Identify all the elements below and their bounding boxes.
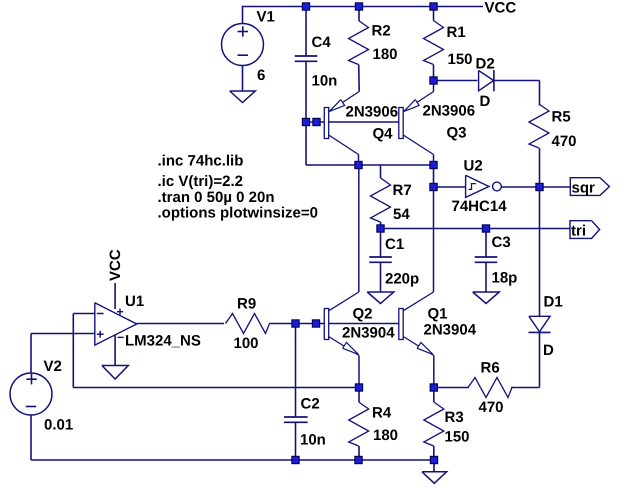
- label U2: [464, 158, 483, 175]
- label VCC top rail: [485, 0, 517, 17]
- wire tri net: [381, 228, 571, 230]
- label VCC of U1 rotated: [107, 249, 124, 281]
- node junction Q1 emitter / R3 / R6: [430, 384, 437, 391]
- wire U1 V+ lead: [114, 283, 116, 309]
- transistor Q3 base bar: [399, 108, 403, 139]
- ground under C3: [473, 292, 500, 304]
- wire V2 top lead: [30, 334, 32, 374]
- svg-text:R1: R1: [447, 24, 466, 41]
- label C2: [301, 396, 320, 413]
- node junction C2 bottom: [292, 456, 299, 463]
- wire V1 bottom lead: [242, 66, 244, 92]
- wire C3 bottom lead: [485, 262, 487, 292]
- capacitor C3: [475, 257, 498, 262]
- wire R3 bottom lead: [433, 446, 435, 460]
- svg-text:V2: V2: [44, 358, 62, 375]
- svg-text:C4: C4: [312, 34, 332, 51]
- svg-text:.inc 74hc.lib: .inc 74hc.lib: [158, 153, 244, 170]
- svg-text:180: 180: [373, 427, 398, 444]
- label R6: [481, 360, 500, 377]
- wire ground lead bottom: [433, 460, 435, 472]
- svg-text:Q2: Q2: [353, 306, 373, 323]
- wire R6 left lead: [434, 387, 469, 389]
- resistor R3: [424, 402, 444, 446]
- svg-text:C1: C1: [385, 236, 404, 253]
- label R7: [393, 182, 412, 199]
- transistor Q2 collector: [329, 165, 359, 311]
- ground under U1: [102, 366, 128, 380]
- svg-text:C3: C3: [492, 234, 511, 251]
- node junction U2 input: [430, 183, 437, 190]
- wire C1 top lead: [380, 229, 382, 258]
- label R1: [447, 24, 466, 41]
- node junction base wire second: [313, 118, 320, 125]
- label V1: [257, 9, 275, 26]
- node junction Q4/Q2 collectors: [355, 161, 362, 168]
- wire C4 top lead: [305, 7, 307, 57]
- wire collector row left: [306, 164, 359, 166]
- wire R1 top lead: [433, 7, 435, 21]
- svg-text:R4: R4: [372, 405, 392, 422]
- capacitor C4: [295, 56, 318, 61]
- transistor Q3 emitter arrow: [404, 100, 419, 112]
- label U1: [125, 293, 144, 310]
- svg-text:2N3906: 2N3906: [423, 103, 476, 120]
- svg-text:6: 6: [257, 67, 265, 84]
- transistor Q1 emitter: [403, 337, 434, 388]
- node junction R7 bottom / tri: [377, 225, 384, 232]
- svg-text:54: 54: [393, 206, 410, 223]
- label Q3: [447, 125, 467, 142]
- wire C2 bottom lead: [295, 422, 297, 460]
- svg-text:2N3904: 2N3904: [342, 325, 395, 342]
- node junction Q2 emitter / R4 / feedback: [355, 384, 362, 391]
- wire R1 bottom lead: [433, 65, 435, 81]
- svg-text:D2: D2: [476, 56, 495, 73]
- value 150 of R1: [448, 51, 473, 68]
- wire R9 right lead: [270, 323, 296, 325]
- svg-text:470: 470: [552, 133, 577, 150]
- node junction R4 bottom: [355, 456, 362, 463]
- wire C2 top lead: [295, 324, 297, 418]
- svg-text:C2: C2: [301, 396, 320, 413]
- wire V1 top lead: [242, 6, 244, 24]
- svg-text:Q1: Q1: [428, 306, 448, 323]
- op-amp U1: [95, 303, 137, 345]
- node junction R3 bottom / ground: [430, 456, 437, 463]
- wire feedback down: [72, 314, 74, 388]
- svg-text:Q4: Q4: [373, 126, 394, 143]
- value 10n of C4: [312, 73, 338, 90]
- svg-text:R6: R6: [481, 360, 500, 377]
- svg-text:sqr: sqr: [572, 179, 596, 196]
- transistor Q2 emitter: [329, 337, 359, 388]
- label 74HC14: [452, 198, 508, 215]
- directive .options: [158, 205, 318, 222]
- svg-text:VCC: VCC: [107, 249, 124, 281]
- inverter U2: [466, 175, 502, 197]
- node junction C3 top: [482, 225, 489, 232]
- value 470 of R5: [552, 133, 577, 150]
- svg-text:R7: R7: [393, 182, 412, 199]
- label C3: [492, 234, 511, 251]
- value 150 of R3: [445, 429, 470, 446]
- voltage source V1: [222, 24, 264, 66]
- wire U2 output: [501, 186, 570, 188]
- diode D1: [529, 316, 551, 332]
- value 6 of V1: [257, 67, 265, 84]
- transistor Q4 collector: [329, 135, 359, 165]
- value 0.01 of V2: [44, 417, 73, 434]
- wire VCC top rail: [243, 6, 484, 8]
- transistor Q1 collector: [403, 187, 433, 311]
- node junction base wire second bottom: [312, 320, 319, 327]
- resistor R1: [424, 21, 444, 65]
- label 2N3906 of Q4: [346, 104, 399, 121]
- wire feedback across: [73, 387, 359, 389]
- wire bottom rail: [31, 459, 434, 461]
- flag sqr: [570, 178, 609, 197]
- svg-text:470: 470: [479, 399, 504, 416]
- wire R5 bottom lead: [539, 148, 541, 187]
- label V2: [44, 358, 62, 375]
- label C1: [385, 236, 404, 253]
- resistor R6: [468, 378, 512, 398]
- directive .inc: [158, 153, 244, 170]
- diode D2: [479, 70, 494, 91]
- wire C1 bottom lead: [380, 262, 382, 292]
- ground under C1: [367, 292, 394, 304]
- svg-text:180: 180: [373, 46, 398, 63]
- value 470 of R6: [479, 399, 504, 416]
- node junction top rail at C4: [302, 3, 309, 10]
- ground bottom: [422, 472, 447, 484]
- svg-text:150: 150: [448, 51, 473, 68]
- svg-text:74HC14: 74HC14: [452, 198, 508, 215]
- svg-text:VCC: VCC: [485, 0, 517, 17]
- svg-text:.ic V(tri)=2.2: .ic V(tri)=2.2: [158, 173, 243, 190]
- resistor R4: [349, 402, 369, 446]
- label R2: [372, 23, 391, 40]
- directive .ic: [158, 173, 243, 190]
- label Q4: [373, 126, 394, 143]
- wire D2 cathode to R5 corner: [494, 81, 540, 106]
- capacitor C2: [284, 417, 308, 422]
- value D of D2: [480, 93, 491, 110]
- label 2N3904 of Q1: [424, 322, 477, 339]
- label R3: [445, 409, 464, 426]
- svg-text:D1: D1: [544, 294, 563, 311]
- label D2: [476, 56, 495, 73]
- wire U1 plus input: [31, 333, 95, 335]
- label R9: [237, 296, 256, 313]
- transistor Q2 base bar: [324, 309, 328, 340]
- resistor R7: [371, 178, 391, 222]
- svg-text:220p: 220p: [385, 271, 419, 288]
- svg-text:10n: 10n: [312, 73, 338, 90]
- ground under V1: [230, 91, 256, 103]
- value 180 of R2: [373, 46, 398, 63]
- wire R2 bottom lead: [358, 65, 361, 92]
- node junction top rail at R2: [355, 3, 362, 10]
- svg-text:.options plotwinsize=0: .options plotwinsize=0: [158, 205, 318, 222]
- label LM324_NS: [125, 333, 201, 350]
- flag tri: [570, 221, 600, 240]
- svg-text:tri: tri: [571, 223, 586, 240]
- transistor Q3 collector: [403, 135, 433, 165]
- node junction top rail at R1: [430, 3, 437, 10]
- svg-text:10n: 10n: [300, 432, 326, 449]
- wire U1 V- lead: [114, 335, 116, 366]
- wire R4 top lead: [358, 388, 360, 403]
- wire to D2 anode: [434, 80, 478, 82]
- svg-text:U2: U2: [464, 158, 483, 175]
- wire R2 top lead: [358, 7, 360, 21]
- label 2N3904 of Q2: [342, 325, 395, 342]
- node junction C4/base wire: [302, 118, 309, 125]
- value 10n of C2: [300, 432, 326, 449]
- voltage source V2: [10, 373, 52, 415]
- wire base rail PNP pair: [306, 121, 399, 123]
- wire Q3 collector to U2 input: [433, 165, 435, 187]
- value 18p of C3: [492, 270, 518, 287]
- svg-text:R5: R5: [552, 109, 571, 126]
- label 2N3906 of Q3: [423, 103, 476, 120]
- resistor R5: [529, 104, 549, 148]
- wire R7 bottom lead: [380, 222, 382, 229]
- value D of D1: [543, 342, 554, 359]
- svg-text:18p: 18p: [492, 270, 518, 287]
- wire V2 bottom lead: [30, 415, 32, 460]
- wire collector row right: [359, 164, 434, 166]
- node junction sqr net: [536, 183, 543, 190]
- transistor Q4 base bar: [324, 108, 328, 139]
- wire D1 cathode down: [539, 332, 541, 387]
- label Q2: [353, 306, 373, 323]
- label R5: [552, 109, 571, 126]
- svg-text:100: 100: [234, 335, 259, 352]
- wire corner to R6: [511, 387, 540, 389]
- resistor R2: [349, 21, 369, 65]
- wire R3 top lead: [433, 388, 435, 403]
- svg-text:D: D: [543, 342, 554, 359]
- svg-text:D: D: [480, 93, 491, 110]
- wire C4-node down: [305, 122, 307, 165]
- directive .tran: [158, 189, 275, 206]
- wire U1 output: [137, 323, 224, 325]
- transistor Q1 base bar: [399, 309, 403, 340]
- label D1: [544, 294, 563, 311]
- transistor Q3 emitter: [403, 81, 433, 112]
- transistor Q2 emitter arrow: [343, 342, 359, 354]
- svg-text:Q3: Q3: [447, 125, 467, 142]
- resistor R9: [226, 314, 270, 334]
- node junction Q3/Q1 collectors: [430, 161, 437, 168]
- svg-text:LM324_NS: LM324_NS: [125, 333, 201, 350]
- svg-text:R9: R9: [237, 296, 256, 313]
- svg-text:.tran 0 50µ 0 20n: .tran 0 50µ 0 20n: [158, 189, 275, 206]
- svg-text:150: 150: [445, 429, 470, 446]
- node junction R1 bottom / Q3 emitter / D2: [430, 77, 437, 84]
- node junction R9/C2/base: [292, 320, 299, 327]
- wire U1 minus input: [73, 313, 95, 315]
- capacitor C1: [369, 257, 392, 262]
- wire R5 node down to D1: [539, 187, 541, 316]
- label R4: [372, 405, 392, 422]
- wire U2 input: [434, 186, 466, 188]
- svg-text:2N3906: 2N3906: [346, 104, 399, 121]
- value 220p of C1: [385, 271, 419, 288]
- svg-text:0.01: 0.01: [44, 417, 73, 434]
- label C4: [312, 34, 332, 51]
- value 180 of R4: [373, 427, 398, 444]
- svg-text:R3: R3: [445, 409, 464, 426]
- wire R4 bottom lead: [358, 446, 360, 460]
- transistor Q4 emitter arrow: [329, 100, 344, 112]
- label Q1: [428, 306, 448, 323]
- value 100 of R9: [234, 335, 259, 352]
- wire C4 bottom lead: [305, 61, 307, 122]
- svg-text:2N3904: 2N3904: [424, 322, 477, 339]
- transistor Q4 emitter: [329, 92, 360, 112]
- wire R7 top lead: [380, 165, 382, 178]
- wire C3 top lead: [485, 229, 487, 258]
- svg-text:R2: R2: [372, 23, 391, 40]
- svg-text:V1: V1: [257, 9, 275, 26]
- wire base rail NPN pair: [296, 323, 399, 325]
- transistor Q1 emitter arrow: [417, 342, 433, 354]
- svg-text:U1: U1: [125, 293, 144, 310]
- value 54 of R7: [393, 206, 410, 223]
